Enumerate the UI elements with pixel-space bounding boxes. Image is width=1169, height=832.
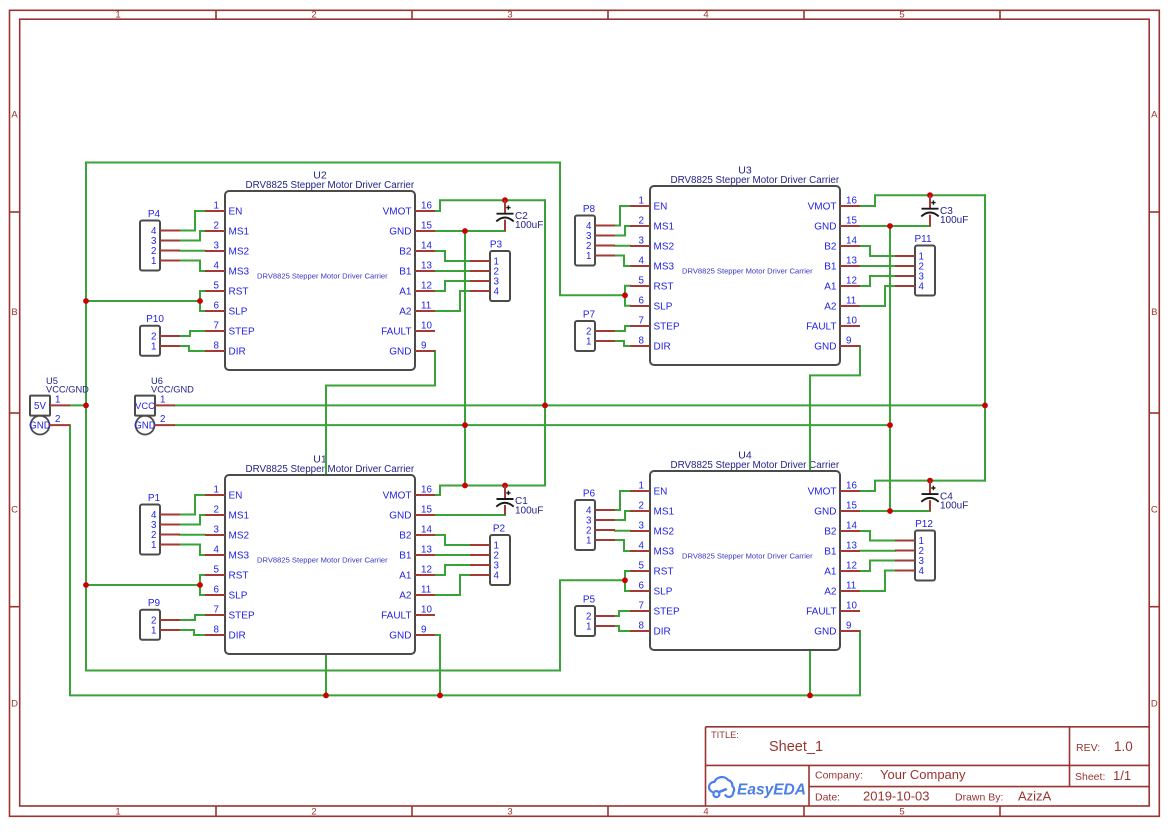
svg-text:1: 1 (586, 251, 591, 262)
svg-text:DRV8825 Stepper Motor Driver C: DRV8825 Stepper Motor Driver Carrier (257, 271, 388, 280)
svg-text:P11: P11 (914, 234, 931, 245)
P8 pin 4 (586, 221, 615, 232)
U1 pin 7 STEP (205, 605, 255, 622)
junction (437, 693, 443, 699)
P8 pin 2 (586, 241, 615, 252)
wire U4 GND15 to C4 (860, 510, 930, 512)
U2 pin 4 MS3 (205, 261, 250, 278)
U5 pin 1 (50, 404, 70, 406)
svg-text:8: 8 (214, 341, 220, 352)
junction (83, 582, 89, 588)
svg-text:FAULT: FAULT (806, 322, 836, 333)
wire P6.4 to U4 EN (615, 491, 630, 510)
svg-text:2: 2 (160, 414, 165, 425)
wire P5.2 to U4 STEP (615, 611, 630, 616)
svg-text:SLP: SLP (654, 302, 673, 313)
U5 pin 2 (49, 424, 70, 426)
U2 pin 12 A1 (399, 281, 435, 298)
U3 pin 4 MS3 (630, 256, 675, 273)
P3 pin 2 (470, 267, 499, 278)
wire P8.1 to U3 MS3 (615, 256, 630, 267)
P3 pin 4 (470, 287, 500, 298)
junction (622, 577, 628, 583)
svg-text:1: 1 (160, 395, 165, 406)
svg-text:STEP: STEP (654, 607, 680, 618)
junction (887, 508, 893, 514)
svg-text:B1: B1 (399, 551, 412, 562)
connector P2 (470, 524, 510, 586)
svg-text:4: 4 (214, 261, 220, 272)
svg-text:STEP: STEP (229, 327, 255, 338)
svg-text:B2: B2 (824, 527, 837, 538)
P2 pin 2 (470, 551, 499, 562)
wire bottom 5V branch to U4 RST node (86, 580, 625, 670)
IC U3 DRV8825 Stepper Motor Driver Carrier (630, 186, 860, 365)
svg-text:VMOT: VMOT (808, 487, 837, 498)
wire P8.4 to U3 EN (615, 206, 630, 226)
svg-text:EN: EN (229, 207, 243, 218)
svg-text:5: 5 (639, 276, 645, 287)
wire P6.1 to U4 MS3 (615, 540, 630, 551)
IC U4 DRV8825 Stepper Motor Driver Carrier (630, 471, 860, 650)
wire U3 SLP stub (625, 295, 630, 305)
connector P12 (895, 519, 935, 581)
svg-text:3: 3 (214, 241, 220, 252)
P5 pin 2 (586, 612, 615, 623)
U4 pin 9 GND (814, 621, 860, 638)
wire P10.1 to U2 DIR (180, 346, 205, 351)
junction (542, 403, 548, 409)
wire U1 A2 to P2.4 (435, 575, 470, 595)
U1 pin 4 MS3 (205, 545, 250, 562)
svg-text:Date:: Date: (815, 791, 840, 803)
U3 pin 14 B2 (824, 236, 860, 253)
svg-text:14: 14 (846, 236, 857, 247)
P11 pin 2 (895, 262, 924, 273)
P11 pin 3 (895, 272, 925, 283)
svg-text:6: 6 (639, 581, 645, 592)
svg-text:4: 4 (919, 282, 925, 293)
U3 pin 11 A2 (824, 296, 860, 313)
U1 pin 6 SLP (205, 585, 248, 602)
svg-text:Sheet:: Sheet: (1075, 771, 1105, 783)
U1 pin 2 MS1 (205, 505, 250, 522)
svg-text:2: 2 (55, 414, 60, 425)
svg-text:1: 1 (586, 536, 591, 547)
svg-text:3: 3 (639, 521, 645, 532)
wire P9.2 to U1 STEP (180, 615, 205, 620)
svg-text:GND: GND (389, 511, 411, 522)
P10 pin 1 (151, 342, 180, 353)
svg-text:DRV8825 Stepper Motor Driver C: DRV8825 Stepper Motor Driver Carrier (257, 555, 388, 564)
svg-text:D: D (11, 699, 18, 710)
P4 pin 3 (151, 236, 180, 247)
svg-text:P2: P2 (493, 524, 506, 535)
svg-text:7: 7 (214, 605, 219, 616)
junction (622, 292, 628, 298)
IC U2 title (246, 170, 415, 192)
connector P11 (895, 234, 935, 296)
wire U5 5V pin to node (70, 404, 86, 406)
svg-text:P12: P12 (915, 519, 933, 530)
svg-text:P5: P5 (583, 595, 596, 606)
P3 pin 3 (470, 277, 500, 288)
connector P7 (575, 310, 615, 352)
svg-text:8: 8 (639, 336, 645, 347)
svg-text:100uF: 100uF (515, 220, 543, 231)
U4 pin 2 MS1 (630, 501, 675, 518)
wire VMOT vertical x=545 (544, 200, 546, 485)
U1 pin 10 FAULT (381, 605, 435, 622)
wire to U2 RST/SLP (86, 300, 200, 302)
svg-text:B2: B2 (824, 242, 837, 253)
svg-text:15: 15 (421, 505, 432, 516)
junction (807, 693, 813, 699)
svg-text:C: C (1151, 505, 1158, 516)
wire P10.2 to U2 STEP (180, 331, 205, 336)
wire U4 RST stub (625, 571, 630, 580)
junction (927, 192, 933, 198)
P6 pin 3 (586, 516, 615, 527)
U2 body (225, 191, 415, 370)
svg-text:DIR: DIR (654, 627, 671, 638)
P8 pin 1 (586, 251, 615, 262)
U1 pin 5 RST (205, 565, 249, 582)
junction (462, 228, 468, 234)
svg-text:9: 9 (421, 625, 426, 636)
power source U6 VCC/GND (134, 376, 194, 435)
junction (462, 422, 468, 428)
svg-text:MS3: MS3 (229, 551, 250, 562)
U3 pin 10 FAULT (806, 316, 860, 333)
wire P4.2 to U2 MS2 (180, 250, 205, 252)
IC U2 DRV8825 Stepper Motor Driver Carrier (205, 191, 435, 370)
svg-text:12: 12 (421, 281, 432, 292)
junction (887, 422, 893, 428)
U4 pin 8 DIR (630, 621, 671, 638)
U3 pin 5 RST (630, 276, 674, 293)
wire U1 GND15 to C1 (435, 514, 505, 516)
U2 pin 15 GND (389, 221, 435, 238)
svg-text:MS1: MS1 (654, 507, 675, 518)
junction (927, 478, 933, 484)
svg-text:B1: B1 (824, 547, 837, 558)
U1 pin 11 A2 (399, 585, 435, 602)
svg-text:5V: 5V (34, 401, 46, 412)
U4 pin 14 B2 (824, 521, 860, 538)
svg-text:14: 14 (846, 521, 857, 532)
U2 pin 5 RST (205, 281, 249, 298)
svg-text:16: 16 (421, 201, 432, 212)
U1 pin 16 VMOT (383, 485, 435, 502)
wire GND vertical x=890 (889, 226, 891, 511)
svg-text:A: A (11, 110, 18, 121)
capacitor C1 100uF (496, 486, 543, 517)
svg-text:EN: EN (229, 491, 243, 502)
svg-text:DRV8825 Stepper Motor Driver C: DRV8825 Stepper Motor Driver Carrier (682, 266, 813, 275)
svg-text:DRV8825 Stepper Motor Driver C: DRV8825 Stepper Motor Driver Carrier (671, 175, 840, 186)
svg-text:12: 12 (846, 276, 857, 287)
wire VMOT vertical x=985 (984, 195, 986, 480)
svg-text:2019-10-03: 2019-10-03 (863, 789, 930, 804)
svg-text:6: 6 (639, 296, 645, 307)
svg-text:100uF: 100uF (515, 505, 543, 516)
wire P9.1 to U1 DIR (180, 630, 205, 635)
svg-text:10: 10 (846, 316, 857, 327)
U4 pin 4 MS3 (630, 541, 675, 558)
svg-text:6: 6 (214, 585, 220, 596)
svg-text:12: 12 (846, 561, 857, 572)
svg-text:MS2: MS2 (654, 527, 675, 538)
P3 pin 1 (470, 257, 499, 268)
svg-text:1: 1 (214, 485, 219, 496)
svg-text:1: 1 (115, 10, 120, 21)
junction (323, 693, 329, 699)
connector P6 (575, 489, 615, 551)
wire P4.4 to U2 EN (180, 211, 205, 231)
svg-text:2: 2 (214, 221, 219, 232)
svg-text:Your Company: Your Company (880, 767, 966, 782)
svg-text:2: 2 (214, 505, 219, 516)
P10 pin 2 (151, 332, 180, 343)
U2 pin 3 MS2 (205, 241, 250, 258)
svg-text:B2: B2 (399, 531, 412, 542)
svg-text:GND: GND (814, 342, 836, 353)
svg-text:10: 10 (421, 321, 432, 332)
svg-text:AzizA: AzizA (1018, 789, 1052, 804)
svg-text:RST: RST (654, 567, 674, 578)
U2 pin 11 A2 (399, 301, 435, 318)
wire VCC rail y=405 (175, 404, 985, 406)
U4 pin 3 MS2 (630, 521, 675, 538)
P4 pin 1 (151, 256, 180, 267)
svg-text:GND: GND (814, 627, 836, 638)
wire U3 B1 to P11.2 (860, 265, 895, 267)
U5 VCC terminal (31, 416, 50, 435)
wire U3 A1 to P11.3 (860, 276, 895, 286)
svg-text:SLP: SLP (654, 587, 673, 598)
svg-text:15: 15 (421, 221, 432, 232)
svg-text:DIR: DIR (229, 347, 246, 358)
svg-text:STEP: STEP (229, 611, 255, 622)
U3 pin 12 A1 (824, 276, 860, 293)
P1 pin 3 (151, 520, 180, 531)
junction (502, 483, 508, 489)
wire U1 B1 to P2.2 (435, 554, 470, 556)
svg-text:MS2: MS2 (654, 242, 675, 253)
svg-text:13: 13 (846, 541, 857, 552)
svg-text:5: 5 (214, 565, 220, 576)
wire U1 B2 to P2.1 (435, 535, 470, 545)
wire U2 A2 to P3.4 (435, 291, 470, 311)
P11 pin 4 (895, 282, 925, 293)
P8 pin 3 (586, 231, 615, 242)
svg-text:P1: P1 (148, 493, 161, 504)
svg-text:1: 1 (151, 256, 156, 267)
svg-text:EasyEDA: EasyEDA (737, 782, 806, 799)
wire U3 GND15 to C3 (860, 225, 930, 227)
svg-text:1.0: 1.0 (1114, 739, 1133, 754)
svg-text:7: 7 (214, 321, 219, 332)
svg-text:B: B (11, 307, 17, 318)
wire P6.3 to U4 MS1 (615, 511, 630, 520)
U1 pin 15 GND (389, 505, 435, 522)
svg-text:REV:: REV: (1076, 742, 1100, 754)
P12 pin 2 (895, 546, 924, 557)
svg-text:15: 15 (846, 216, 857, 227)
svg-text:100uF: 100uF (940, 501, 968, 512)
svg-text:1: 1 (115, 807, 120, 818)
svg-text:P3: P3 (490, 240, 503, 251)
P7 pin 1 (586, 337, 615, 348)
wire U2 GND9 chain (326, 351, 435, 695)
svg-text:A1: A1 (824, 567, 837, 578)
capacitor C4 100uF (921, 481, 968, 512)
svg-text:P9: P9 (148, 598, 161, 609)
wire P4.1 to U2 MS3 (180, 261, 205, 272)
U1 pin 1 EN (205, 485, 242, 502)
svg-text:Sheet_1: Sheet_1 (769, 739, 823, 755)
P5 pin 1 (586, 622, 615, 633)
svg-text:DIR: DIR (229, 631, 246, 642)
U3 pin 3 MS2 (630, 236, 675, 253)
wire U4 A1 to P12.3 (860, 561, 895, 572)
svg-text:MS2: MS2 (229, 247, 250, 258)
svg-text:4: 4 (703, 10, 708, 21)
svg-text:GND: GND (814, 222, 836, 233)
svg-text:13: 13 (421, 261, 432, 272)
svg-text:3: 3 (214, 525, 220, 536)
connector P10 (140, 314, 180, 356)
svg-text:1: 1 (214, 201, 219, 212)
svg-text:1: 1 (151, 540, 156, 551)
svg-text:B1: B1 (824, 262, 837, 273)
wire P7.2 to U3 STEP (615, 326, 630, 331)
svg-text:GND: GND (29, 421, 51, 432)
U1 pin 12 A1 (399, 565, 435, 582)
svg-text:A: A (1151, 110, 1158, 121)
U2 pin 8 DIR (205, 341, 246, 358)
P6 pin 4 (586, 506, 615, 517)
svg-text:2: 2 (639, 501, 644, 512)
junction (462, 483, 468, 489)
connector P1 (140, 493, 180, 555)
svg-text:4: 4 (214, 545, 220, 556)
wire U2 VMOT to C2 node (435, 200, 545, 211)
U3 pin 6 SLP (630, 296, 673, 313)
junction (83, 403, 89, 409)
junction (502, 197, 508, 203)
svg-text:8: 8 (639, 621, 645, 632)
svg-text:D: D (1151, 699, 1158, 710)
wire P1.2 to U1 MS2 (180, 534, 205, 536)
U2 pin 6 SLP (205, 301, 248, 318)
U1 pin 8 DIR (205, 625, 246, 642)
svg-text:A2: A2 (399, 307, 412, 318)
wire P1.4 to U1 EN (180, 495, 205, 515)
U3 pin 7 STEP (630, 316, 680, 333)
P1 pin 4 (151, 510, 180, 521)
U1 pin 3 MS2 (205, 525, 250, 542)
svg-text:4: 4 (703, 807, 708, 818)
svg-text:MS3: MS3 (654, 547, 675, 558)
P9 pin 1 (151, 626, 180, 637)
U2 pin 2 MS1 (205, 221, 250, 238)
svg-text:9: 9 (846, 621, 851, 632)
wire U5 GND down / bottom GND rail y=695 / U4 GND9 (70, 425, 860, 695)
U6 pin 1 (155, 404, 175, 406)
svg-text:MS3: MS3 (229, 267, 250, 278)
P1 pin 2 (151, 530, 180, 541)
svg-text:5: 5 (899, 807, 904, 818)
U2 pin 7 STEP (205, 321, 255, 338)
wire 5V spine x=86 / top rail y=162 to U3 RST node (86, 163, 625, 671)
P12 pin 4 (895, 566, 925, 577)
connector P8 (575, 204, 615, 266)
U2 pin 13 B1 (399, 261, 435, 278)
svg-text:FAULT: FAULT (381, 327, 411, 338)
svg-text:RST: RST (654, 282, 674, 293)
U2 pin 16 VMOT (383, 201, 435, 218)
svg-text:GND: GND (389, 227, 411, 238)
svg-text:3: 3 (507, 10, 512, 21)
svg-text:MS3: MS3 (654, 262, 675, 273)
U3 pin 8 DIR (630, 336, 671, 353)
svg-text:EN: EN (654, 487, 668, 498)
svg-text:1: 1 (151, 342, 156, 353)
svg-text:11: 11 (421, 301, 431, 312)
svg-text:DRV8825 Stepper Motor Driver C: DRV8825 Stepper Motor Driver Carrier (246, 464, 415, 475)
wire U3 A2 to P11.4 (860, 286, 895, 306)
wire GND vertical x=465 (464, 231, 466, 486)
svg-text:C: C (11, 505, 18, 516)
wire GND rail y=425 (175, 424, 890, 426)
svg-text:2: 2 (639, 216, 644, 227)
junction (982, 403, 988, 409)
wire U1 GND9 drop (435, 635, 440, 695)
U3 pin 1 EN (630, 196, 667, 213)
svg-text:A2: A2 (824, 302, 837, 313)
U3 pin 15 GND (814, 216, 860, 233)
wire U2 A1 to P3.3 (435, 281, 470, 291)
U4 body (650, 471, 840, 650)
P4 pin 2 (151, 246, 180, 257)
svg-text:14: 14 (421, 241, 432, 252)
wire U2 B2 to P3.1 (435, 251, 470, 261)
svg-text:B: B (1151, 307, 1157, 318)
U4 pin 10 FAULT (806, 601, 860, 618)
svg-text:SLP: SLP (229, 591, 248, 602)
svg-text:P7: P7 (583, 310, 596, 321)
svg-text:10: 10 (846, 601, 857, 612)
svg-text:4: 4 (639, 256, 645, 267)
P2 pin 4 (470, 571, 500, 582)
svg-text:P6: P6 (583, 489, 596, 500)
EasyEDA logo (709, 777, 806, 799)
svg-text:VCC/GND: VCC/GND (46, 384, 89, 394)
svg-text:100uF: 100uF (940, 215, 968, 226)
P9 pin 2 (151, 616, 180, 627)
svg-text:B2: B2 (399, 247, 412, 258)
svg-text:14: 14 (421, 525, 432, 536)
svg-text:A1: A1 (399, 571, 412, 582)
P7 pin 2 (586, 327, 615, 338)
wire U2 B1 to P3.2 (435, 270, 470, 272)
U6 VCC terminal (136, 416, 155, 435)
wire U1 SLP stub (200, 585, 205, 595)
svg-text:4: 4 (919, 566, 925, 577)
wire U4 A2 to P12.4 (860, 571, 895, 592)
